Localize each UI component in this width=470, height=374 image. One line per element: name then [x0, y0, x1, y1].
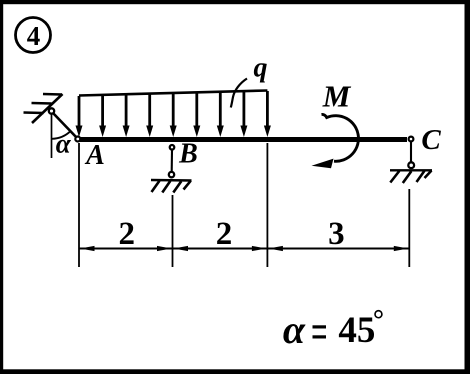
moment arc [322, 114, 359, 161]
support C hatching [390, 171, 431, 184]
svg-text:2: 2 [119, 216, 136, 252]
svg-text:2: 2 [216, 216, 233, 252]
distributed load q top line [79, 91, 267, 96]
svg-text:M: M [322, 79, 352, 114]
wall (inclined hatched surface) [24, 94, 63, 123]
q leader line [231, 79, 247, 108]
svg-text:A: A [84, 140, 105, 171]
support B ground line [151, 179, 192, 182]
rod from wall pin to A [53, 113, 78, 139]
svg-text:B: B [178, 139, 198, 170]
extension line at B [172, 195, 174, 267]
support C link [410, 142, 412, 162]
dimension arrowheads [80, 246, 408, 251]
extension line at C [408, 189, 410, 267]
distributed load arrows [76, 91, 271, 137]
angle arc alpha [52, 131, 71, 139]
beam [76, 137, 407, 142]
svg-text:45: 45 [338, 310, 375, 351]
svg-text:α: α [56, 129, 72, 159]
support B link [171, 150, 173, 172]
svg-text:α: α [283, 307, 306, 352]
moment arrowhead [312, 159, 334, 169]
task number circle 4 [16, 18, 51, 53]
extension line at load end [266, 143, 268, 267]
support C ground line [390, 169, 432, 171]
support B upper pin [170, 145, 175, 150]
dimension line [79, 248, 409, 250]
support B lower pin [169, 172, 174, 177]
joint A pin [75, 137, 80, 142]
extension line at A [78, 143, 80, 267]
support C lower pin [408, 162, 414, 168]
svg-text:C: C [421, 124, 441, 156]
equation alpha = 45 deg [283, 305, 384, 352]
svg-text:3: 3 [328, 216, 345, 252]
pin at wall [49, 108, 54, 113]
svg-text:q: q [254, 53, 268, 84]
support C upper pin [409, 137, 414, 142]
support B hatching [152, 181, 191, 193]
svg-text:4: 4 [27, 21, 41, 51]
svg-text:°: ° [373, 305, 384, 336]
vertical reference line for angle [51, 115, 53, 159]
